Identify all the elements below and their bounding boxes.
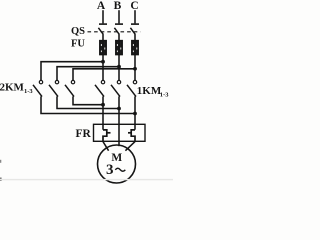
svg-text:A: A: [97, 0, 106, 12]
svg-text:FR: FR: [76, 128, 92, 140]
svg-text:1-3: 1-3: [24, 88, 33, 95]
svg-text:2KM: 2KM: [0, 81, 25, 93]
svg-text:C: C: [130, 0, 138, 12]
svg-text:QS: QS: [71, 26, 85, 37]
svg-text:1KM: 1KM: [137, 85, 162, 97]
svg-text:B: B: [114, 0, 122, 12]
svg-text:1-3: 1-3: [160, 91, 169, 98]
svg-text:FU: FU: [71, 39, 85, 50]
svg-text:3: 3: [106, 162, 114, 178]
